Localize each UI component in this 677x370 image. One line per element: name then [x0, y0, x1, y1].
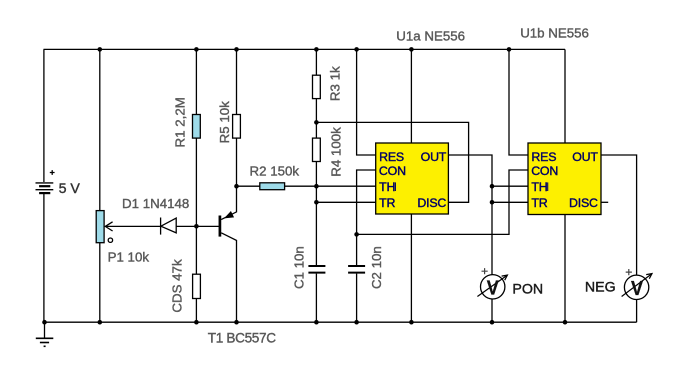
- node bottom CDS: [194, 320, 199, 325]
- node bottom GND U1a: [409, 320, 414, 325]
- svg-text:U1b NE556: U1b NE556: [520, 26, 589, 41]
- node TR U1a: [314, 200, 319, 205]
- svg-text:RES: RES: [379, 150, 404, 164]
- node bottom GND U1b: [563, 320, 568, 325]
- wire top bus: [44, 48, 566, 50]
- svg-text:R4 100k: R4 100k: [329, 127, 344, 177]
- capacitor C2: [348, 234, 365, 322]
- svg-text:PON: PON: [512, 281, 543, 297]
- node diode base: [194, 224, 199, 229]
- node TH U1b: [490, 184, 495, 189]
- node top R5: [234, 47, 239, 52]
- node top RES U1b: [507, 47, 512, 52]
- wire TH-TR node: [315, 186, 317, 202]
- svg-text:NEG: NEG: [585, 279, 616, 295]
- svg-text:U1a NE556: U1a NE556: [396, 28, 465, 43]
- op-amp U1a IC box: [376, 143, 449, 214]
- wire TH U1b: [492, 185, 528, 187]
- wire RES U1a: [357, 49, 376, 155]
- svg-text:OUT: OUT: [421, 150, 447, 164]
- svg-text:TR: TR: [379, 196, 395, 210]
- svg-text:D1 1N4148: D1 1N4148: [122, 196, 189, 211]
- capacitor C1: [308, 202, 325, 322]
- svg-text:CDS 47k: CDS 47k: [170, 259, 185, 313]
- wire wiper node: [105, 225, 219, 227]
- node emitter R5 R2: [234, 184, 239, 189]
- svg-text:TH: TH: [379, 180, 395, 194]
- svg-text:C2 10n: C2 10n: [369, 246, 384, 289]
- node CON C2: [354, 232, 359, 237]
- resistor R5: [233, 49, 241, 186]
- svg-text:V: V: [631, 278, 644, 300]
- node top RES U1a: [354, 47, 359, 52]
- wire VCC U1b: [564, 49, 566, 143]
- node top P1: [98, 47, 103, 52]
- node bottom T1: [234, 320, 239, 325]
- stub DISC U1b: [601, 201, 608, 203]
- wire TH U1a: [316, 185, 375, 187]
- photoresistor CDS: [193, 226, 201, 322]
- wire DISC U1a: [316, 122, 468, 202]
- node TH U1a: [314, 184, 319, 189]
- svg-text:OUT: OUT: [572, 150, 598, 164]
- wire TR U1b: [492, 201, 528, 203]
- svg-text:5 V: 5 V: [59, 181, 81, 197]
- svg-text:TH: TH: [531, 180, 547, 194]
- battery B1 5V: [36, 49, 55, 322]
- svg-text:R3 1k: R3 1k: [328, 66, 343, 101]
- svg-text:R1 2,2M: R1 2,2M: [173, 97, 188, 147]
- wire GND U1a: [410, 214, 412, 322]
- potentiometer P1: [96, 49, 112, 322]
- wire OUT U1b to meter: [601, 155, 637, 275]
- voltmeter NEG: [622, 269, 652, 322]
- resistor R1: [193, 49, 201, 226]
- node bottom P1: [98, 320, 103, 325]
- svg-text:V: V: [487, 278, 500, 300]
- svg-text:T1 BC557C: T1 BC557C: [208, 331, 276, 346]
- svg-text:R5 10k: R5 10k: [217, 101, 232, 143]
- node R3 R4 disc: [314, 120, 319, 125]
- node TR U1b: [490, 200, 495, 205]
- wire CON U1b: [357, 170, 528, 234]
- transistor T1: [220, 186, 237, 322]
- svg-text:P1 10k: P1 10k: [108, 249, 150, 264]
- wire CON U1a: [357, 170, 376, 234]
- node bottom C2: [354, 320, 359, 325]
- node gnd battery: [42, 320, 47, 325]
- svg-text:RES: RES: [531, 150, 556, 164]
- svg-text:CON: CON: [379, 164, 406, 178]
- wire VCC U1a: [410, 49, 412, 143]
- resistor R3: [313, 49, 321, 122]
- svg-text:TR: TR: [531, 196, 547, 210]
- resistor R4: [313, 122, 321, 186]
- ground: [36, 322, 54, 346]
- op-amp U1b IC box: [528, 143, 601, 215]
- node top R1: [194, 47, 199, 52]
- svg-text:DISC: DISC: [417, 196, 446, 210]
- resistor R2: [237, 183, 317, 190]
- svg-text:CON: CON: [531, 164, 558, 178]
- wire bottom bus: [45, 321, 637, 323]
- diode D1: [161, 218, 177, 235]
- node top R3: [314, 47, 319, 52]
- node bottom PON: [490, 320, 495, 325]
- svg-text:DISC: DISC: [569, 196, 598, 210]
- wire GND U1b: [564, 215, 566, 323]
- node bottom C1: [314, 320, 319, 325]
- wire OUT U1a to meter: [448, 155, 492, 275]
- wire TR U1a: [316, 201, 375, 203]
- svg-text:R2 150k: R2 150k: [250, 163, 300, 178]
- node top VCC U1a: [409, 47, 414, 52]
- svg-text:C1 10n: C1 10n: [292, 246, 307, 289]
- voltmeter PON: [477, 268, 507, 322]
- wire RES U1b: [509, 49, 528, 155]
